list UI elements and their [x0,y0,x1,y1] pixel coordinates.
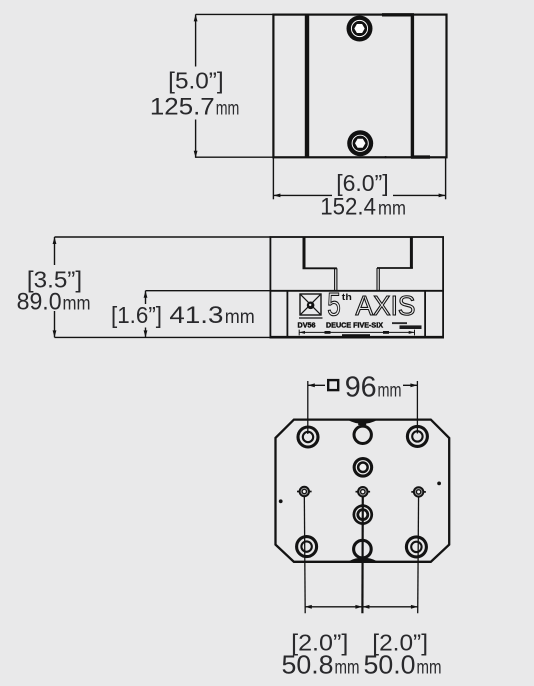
small ring middle [356,486,371,497]
dim 3.5 extension top [55,236,271,238]
svg-text:5: 5 [327,287,341,323]
double ring lower [353,504,374,526]
svg-text:mm: mm [225,307,255,328]
svg-text:50.0: 50.0 [364,650,416,680]
jaw plate left double line b [336,268,338,291]
dim 2.0 arrow far left [305,605,312,609]
dim 3.5 line upper segment [54,237,56,265]
svg-text:DEUCE FIVE-SIX: DEUCE FIVE-SIX [326,320,383,329]
ring bottom-left [297,537,317,557]
dim 6.0 arrow right [439,194,446,198]
svg-text:mm: mm [335,658,360,679]
jaw right shelf [377,267,413,269]
dot on bottom edge [385,156,387,158]
svg-text:mm: mm [378,198,406,220]
jaw right vertical [410,237,413,268]
dim 3.5 arrow up [53,237,57,244]
big circle bottom [354,540,372,558]
svg-text:96: 96 [345,372,377,404]
dim 96 line right segment [403,384,417,386]
dim 1.6 extension step [146,290,271,292]
svg-text:41.3: 41.3 [169,302,223,329]
dim 1.6 arrow down [144,330,148,337]
ring top-right [407,426,427,446]
micro strip arrow marks [299,331,305,334]
tiny dot left [279,499,283,503]
svg-text:mm: mm [63,294,91,315]
svg-text:mm: mm [216,98,240,119]
dim 5.0 extension top [196,13,274,15]
dim 1.6 arrow up [144,291,148,298]
dim 2.0 arrow far right [411,605,418,609]
dim 6.0 line left segment [273,194,332,196]
svg-text:th: th [342,292,352,303]
svg-text:mm: mm [417,658,442,679]
dim 6.0 arrow left [273,194,280,198]
dim 5.0 arrow down [194,151,198,158]
screw bottom [347,130,373,156]
big circle top [354,426,371,443]
jaw left vertical [303,237,306,268]
jaw plate right double line a [376,268,378,291]
dim 3.5 extension bottom [55,336,271,338]
top view outline [273,15,446,158]
dim 6.0 extension right [445,157,447,199]
center line stub top-left [307,381,309,434]
jaw line left (top view) [305,15,309,158]
svg-text:[5.0”]: [5.0”] [168,67,224,93]
svg-text:89.0: 89.0 [17,289,62,316]
svg-text:DV56: DV56 [298,320,316,329]
dim 5.0 extension bottom [196,156,274,158]
step line [270,290,443,292]
svg-text:[1.6”]: [1.6”] [111,302,162,328]
svg-text:50.8: 50.8 [282,650,334,680]
center line lower right [417,492,420,613]
jaw plate right double line b [378,268,380,291]
jaw line right (top view) [411,15,414,158]
top notch [348,420,377,424]
dim 96 line left segment [308,384,325,386]
front bottom edge thick [270,336,445,339]
micro dimension strip line [299,331,414,333]
logo square [299,294,323,318]
square symbol [328,380,338,390]
screw top [347,16,373,42]
dim 2.0 bottom line [305,606,418,608]
dim 6.0 line right segment [393,194,446,196]
svg-text:AXIS: AXIS [356,290,416,321]
dim 1.6 line lower segment [145,328,147,338]
center line lower middle [361,492,364,614]
jaw left shelf [303,267,337,269]
dim 5.0 arrow up [194,14,198,21]
center line lower left [303,492,306,614]
dim 5.0 line lower segment [195,120,197,158]
base column right line [424,291,426,337]
front view outline [270,237,443,337]
svg-text:[6.0”]: [6.0”] [336,170,389,196]
double ring upper [353,457,374,478]
jaw plate edge bottom [411,155,430,158]
dim 2.0 arrows center [355,605,362,609]
svg-text:mm: mm [378,380,402,402]
dim 96 arrow left [308,383,315,387]
small ring left [297,486,312,497]
ring top-left [298,427,318,447]
micro strip center blob [342,334,370,337]
center line stub top-right [416,381,418,434]
svg-text:152.4: 152.4 [320,194,376,221]
dim 6.0 extension left [272,157,274,199]
svg-text:125.7: 125.7 [150,93,215,120]
jaw plate edge top [382,13,414,16]
micro strip right tick [414,330,416,336]
small ring right [411,486,426,497]
octagon plate outline [276,420,450,562]
fine print marks [392,322,407,324]
bottom notch [349,558,378,562]
dim 96 arrow right [410,383,417,387]
jaw plate left double line a [334,268,336,291]
ring bottom-right [406,537,426,557]
dim 3.5 line lower segment [54,311,56,337]
dim 1.6 line upper segment [145,291,147,304]
dim 3.5 arrow down [53,330,57,337]
dim 5.0 line upper segment [195,14,197,66]
base column left line [286,291,288,337]
micro strip left tick [298,330,300,336]
tiny dot right [437,482,441,486]
